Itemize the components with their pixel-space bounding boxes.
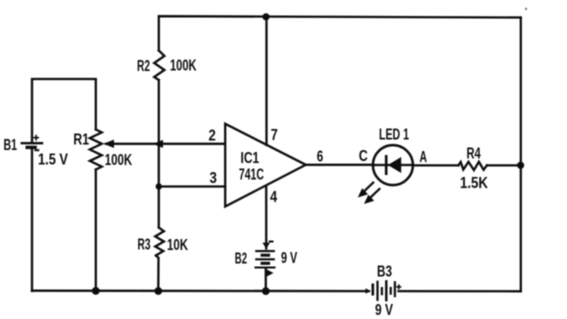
resistor R3 zigzag xyxy=(155,228,164,256)
svg-text:9 V: 9 V xyxy=(375,302,393,319)
svg-text:4: 4 xyxy=(270,189,277,206)
wire B1 branch top xyxy=(32,79,96,141)
svg-text:9 V: 9 V xyxy=(281,250,298,267)
svg-text:IC1: IC1 xyxy=(241,150,260,167)
battery B2 plus mark xyxy=(267,270,274,277)
wire right rail xyxy=(520,18,522,292)
LED light arrow 2 xyxy=(364,188,380,204)
wire pin7 vertical xyxy=(265,17,267,146)
scan speck top right xyxy=(525,8,527,10)
op-amp U1 triangle xyxy=(225,124,306,207)
battery B3 left end tick xyxy=(366,288,371,293)
svg-text:R1: R1 xyxy=(73,132,89,149)
battery B1 plus sign xyxy=(33,135,39,141)
battery B2 minus sign xyxy=(269,241,274,243)
LED D1 cathode bar xyxy=(385,155,388,175)
wire top rail xyxy=(159,16,521,50)
svg-text:B3: B3 xyxy=(377,264,392,281)
wire bottom rail left segment xyxy=(32,290,369,293)
junction node R1 bottom xyxy=(92,287,100,295)
svg-text:2: 2 xyxy=(209,127,216,144)
svg-text:100K: 100K xyxy=(170,58,197,75)
svg-text:R2: R2 xyxy=(137,58,150,75)
wire B1 branch bottom xyxy=(31,149,33,291)
svg-text:7: 7 xyxy=(271,127,278,144)
wire through LED xyxy=(373,164,414,166)
battery B1 plates xyxy=(21,143,44,147)
wire LED to R4 xyxy=(413,164,458,166)
wire R3 top xyxy=(158,187,160,228)
junction node B2 bottom xyxy=(262,287,270,295)
wire bottom rail right segment xyxy=(399,290,521,292)
battery B2 top arrowhead xyxy=(262,243,270,249)
battery B3 plus sign xyxy=(396,284,401,289)
svg-text:6: 6 xyxy=(317,148,324,165)
junction node R3 bottom xyxy=(154,287,162,295)
junction node pin3 tee xyxy=(156,183,162,189)
svg-text:1.5 V: 1.5 V xyxy=(38,152,68,169)
svg-text:B2: B2 xyxy=(235,251,247,268)
svg-text:10K: 10K xyxy=(167,237,188,254)
svg-text:C: C xyxy=(359,148,368,165)
LED D1 circle xyxy=(373,145,413,185)
junction node R4 / right rail xyxy=(517,162,524,169)
svg-text:A: A xyxy=(420,149,428,166)
battery B3 plates xyxy=(373,280,395,301)
wire pin3 stub xyxy=(159,185,225,187)
resistor R4 zigzag xyxy=(458,162,487,170)
svg-text:741C: 741C xyxy=(239,167,264,184)
arrowhead at wiper junction xyxy=(153,140,163,148)
wire opamp output pin6 xyxy=(306,164,373,166)
wire B2 top (pin4 to battery) xyxy=(265,246,267,249)
svg-text:LED 1: LED 1 xyxy=(379,127,409,144)
wire mid vertical between pin2 and pin3 junctions xyxy=(158,144,160,187)
resistor R2 zigzag xyxy=(154,51,164,81)
svg-text:100K: 100K xyxy=(105,152,133,169)
resistor R1 zigzag xyxy=(90,130,102,170)
wire R1 wiper line xyxy=(106,143,159,145)
LED light arrow 1 xyxy=(358,182,374,198)
svg-text:3: 3 xyxy=(210,170,217,187)
wire R1 bottom to rail xyxy=(95,170,97,292)
battery B2 plates xyxy=(255,251,276,267)
LED D1 arrow triangle xyxy=(388,157,401,173)
wire R2 bottom to wiper junction xyxy=(158,80,160,144)
svg-text:1.5K: 1.5K xyxy=(460,175,488,192)
svg-text:B1: B1 xyxy=(4,137,18,154)
potentiometer R1 wiper arrowhead at resistor xyxy=(104,140,115,148)
svg-text:R4: R4 xyxy=(467,146,481,163)
battery B1 minus sign xyxy=(35,149,40,151)
wire R3 bottom to rail with jog xyxy=(156,256,159,292)
svg-text:R3: R3 xyxy=(138,237,151,254)
wire R4 to right rail xyxy=(487,164,521,166)
wire B2 bottom to rail xyxy=(265,269,267,292)
wire pin4 vertical xyxy=(265,187,267,246)
junction node top rail / pin7 xyxy=(262,13,269,20)
wire pin2 stub xyxy=(159,143,225,145)
